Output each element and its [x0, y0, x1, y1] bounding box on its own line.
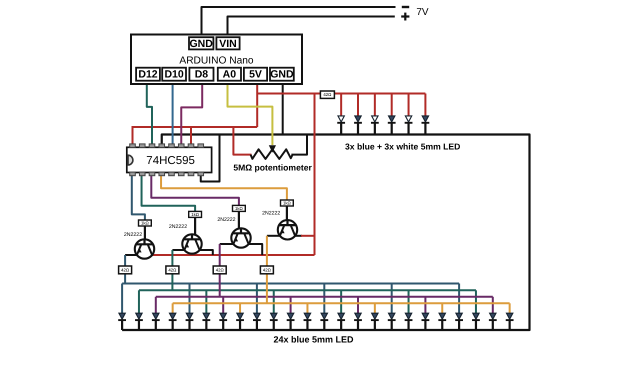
svg-text:5MΩ potentiometer: 5MΩ potentiometer [233, 163, 312, 173]
svg-text:D10: D10 [164, 69, 183, 81]
svg-text:42Ω: 42Ω [168, 267, 177, 272]
svg-text:74HC595: 74HC595 [146, 155, 195, 167]
svg-text:42Ω: 42Ω [121, 267, 130, 272]
svg-text:42Ω: 42Ω [216, 267, 225, 272]
svg-text:ARDUINO Nano: ARDUINO Nano [179, 56, 253, 67]
svg-text:42Ω: 42Ω [323, 92, 332, 97]
svg-text:A0: A0 [223, 69, 237, 81]
svg-text:3x blue + 3x white 5mm LED: 3x blue + 3x white 5mm LED [345, 142, 460, 152]
svg-text:GND: GND [190, 38, 214, 50]
svg-text:24x blue 5mm LED: 24x blue 5mm LED [273, 335, 354, 345]
svg-text:42Ω: 42Ω [263, 267, 272, 272]
svg-text:2N2222: 2N2222 [124, 232, 142, 238]
svg-text:VIN: VIN [219, 38, 237, 50]
svg-text:GND: GND [270, 69, 294, 81]
svg-text:1kΩ: 1kΩ [191, 212, 200, 217]
svg-text:D8: D8 [195, 69, 209, 81]
svg-text:1kΩ: 1kΩ [141, 221, 150, 226]
svg-text:1kΩ: 1kΩ [283, 201, 292, 206]
svg-text:D12: D12 [138, 69, 157, 81]
svg-text:2N2222: 2N2222 [169, 224, 187, 230]
svg-text:1kΩ: 1kΩ [235, 206, 244, 211]
svg-text:2N2222: 2N2222 [217, 217, 235, 223]
svg-text:5V: 5V [249, 69, 262, 81]
svg-text:2N2222: 2N2222 [262, 211, 280, 217]
svg-text:7V: 7V [416, 7, 429, 18]
